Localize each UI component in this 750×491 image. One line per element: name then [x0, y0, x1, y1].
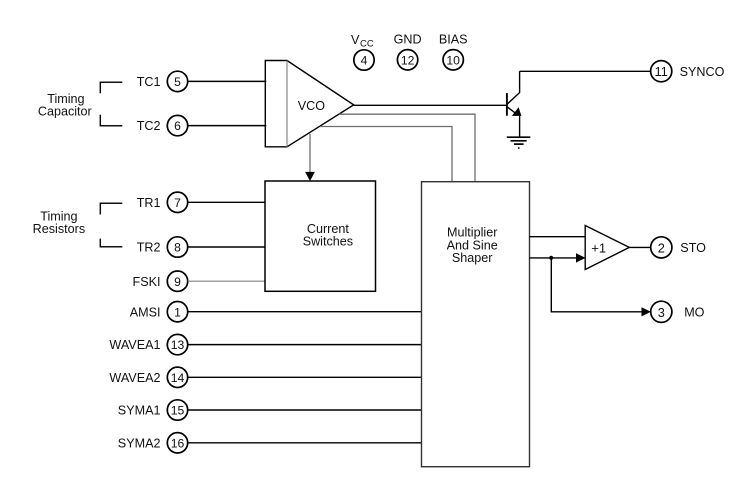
wire junction to MO: [551, 258, 642, 312]
ground symbol: [507, 137, 531, 148]
svg-text:TC2: TC2: [137, 119, 161, 133]
wire AMSI to multiplier: [188, 311, 422, 313]
svg-text:MO: MO: [684, 305, 704, 319]
svg-text:V: V: [351, 33, 360, 47]
svg-text:6: 6: [174, 119, 181, 133]
pin 4 circle: [354, 50, 374, 70]
transistor Q1 collector: [507, 71, 520, 104]
svg-text:1: 1: [174, 305, 181, 319]
wire WAVEA2 to multiplier: [188, 376, 422, 378]
wire TR1 to current switches: [188, 201, 265, 203]
svg-text:7: 7: [174, 196, 181, 210]
svg-text:Shaper: Shaper: [452, 251, 493, 265]
pin 3 circle: [651, 301, 672, 322]
wire emitter to ground: [519, 114, 521, 138]
bracket timing capacitor top corner: [100, 82, 122, 93]
wire TC1 to VCO: [188, 80, 267, 82]
bracket timing resistors top corner: [100, 203, 122, 214]
pin 2 circle: [651, 237, 672, 258]
arrowhead into buffer: [576, 253, 586, 262]
svg-text:8: 8: [174, 241, 181, 255]
transistor Q1 base bar: [506, 93, 508, 116]
VCO block (rectangle + triangle) U1: [265, 61, 353, 147]
pin 9 circle: [167, 271, 187, 291]
current switches block: [265, 181, 376, 291]
pin 15 circle: [167, 400, 187, 420]
pin 5 circle: [167, 71, 187, 91]
svg-text:TR1: TR1: [137, 196, 161, 210]
junction node dot: [549, 256, 553, 260]
svg-text:14: 14: [171, 371, 185, 385]
svg-text:5: 5: [174, 75, 181, 89]
wire buffer to STO: [629, 246, 650, 248]
svg-text:Resistors: Resistors: [33, 222, 85, 236]
svg-text:AMSI: AMSI: [130, 305, 161, 319]
wire VCO output 3 to multiplier (gray): [320, 127, 452, 182]
svg-text:10: 10: [446, 53, 460, 67]
wire WAVEA1 to multiplier: [188, 344, 422, 346]
svg-text:BIAS: BIAS: [439, 32, 468, 46]
svg-text:WAVEA2: WAVEA2: [109, 371, 160, 385]
label Timing Capacitor: [38, 92, 92, 118]
bracket timing resistors bottom corner: [100, 239, 122, 247]
arrowhead into current switches: [305, 172, 315, 181]
svg-text:Capacitor: Capacitor: [38, 104, 92, 118]
bracket timing capacitor bottom corner: [100, 115, 122, 126]
wire SYMA1 to multiplier: [188, 409, 422, 411]
pin 10 circle: [443, 50, 463, 70]
pin 13 circle: [167, 334, 187, 354]
svg-text:9: 9: [174, 275, 181, 289]
svg-text:FSKI: FSKI: [133, 275, 161, 289]
svg-text:SYMA1: SYMA1: [118, 404, 161, 418]
label Timing Resistors: [33, 210, 85, 236]
pin 11 circle: [651, 61, 672, 82]
svg-text:15: 15: [171, 404, 185, 418]
transistor Q1 emitter: [507, 107, 516, 114]
wire collector to SYNCO: [520, 70, 651, 72]
svg-text:WAVEA1: WAVEA1: [109, 338, 160, 352]
pin 14 circle: [167, 367, 187, 387]
svg-text:2: 2: [658, 241, 665, 256]
svg-text:CC: CC: [360, 39, 374, 50]
multiplier and sine shaper block: [422, 182, 530, 467]
pin 6 circle: [167, 115, 187, 135]
wire TR2 to current switches: [188, 246, 265, 248]
wire VCO output 2 to multiplier (gray): [339, 114, 475, 182]
wire VCO to current switches (arrow down): [309, 134, 311, 173]
svg-text:VCO: VCO: [298, 99, 325, 113]
svg-text:3: 3: [658, 305, 665, 320]
svg-text:SYNCO: SYNCO: [680, 65, 725, 79]
pin 7 circle: [167, 192, 187, 212]
wire SYMA2 to multiplier: [188, 442, 422, 444]
svg-text:4: 4: [361, 54, 368, 68]
wire multiplier output B to buffer: [530, 257, 578, 259]
svg-text:Switches: Switches: [303, 234, 353, 248]
transistor Q1 emitter arrow: [512, 107, 522, 116]
wire VCO output to transistor base: [354, 104, 507, 106]
arrowhead into MO: [642, 307, 651, 316]
pin 1 circle: [167, 302, 187, 322]
svg-text:11: 11: [655, 65, 668, 79]
wire FSKI to current switches: [188, 280, 265, 282]
svg-text:SYMA2: SYMA2: [118, 436, 161, 450]
wire multiplier output A to buffer: [530, 236, 586, 238]
svg-text:13: 13: [171, 338, 185, 352]
pin 8 circle: [167, 237, 187, 257]
pin 16 circle: [167, 433, 187, 453]
pin label VCC: [351, 33, 374, 50]
pin 12 circle: [397, 50, 417, 70]
svg-text:+1: +1: [591, 241, 606, 256]
svg-text:12: 12: [401, 53, 415, 67]
svg-text:STO: STO: [680, 241, 706, 255]
svg-text:16: 16: [171, 436, 185, 450]
svg-text:GND: GND: [394, 32, 422, 46]
svg-text:TR2: TR2: [137, 241, 161, 255]
wire TC2 to VCO: [188, 125, 267, 127]
svg-text:TC1: TC1: [137, 75, 161, 89]
buffer amp +1: [585, 226, 629, 270]
